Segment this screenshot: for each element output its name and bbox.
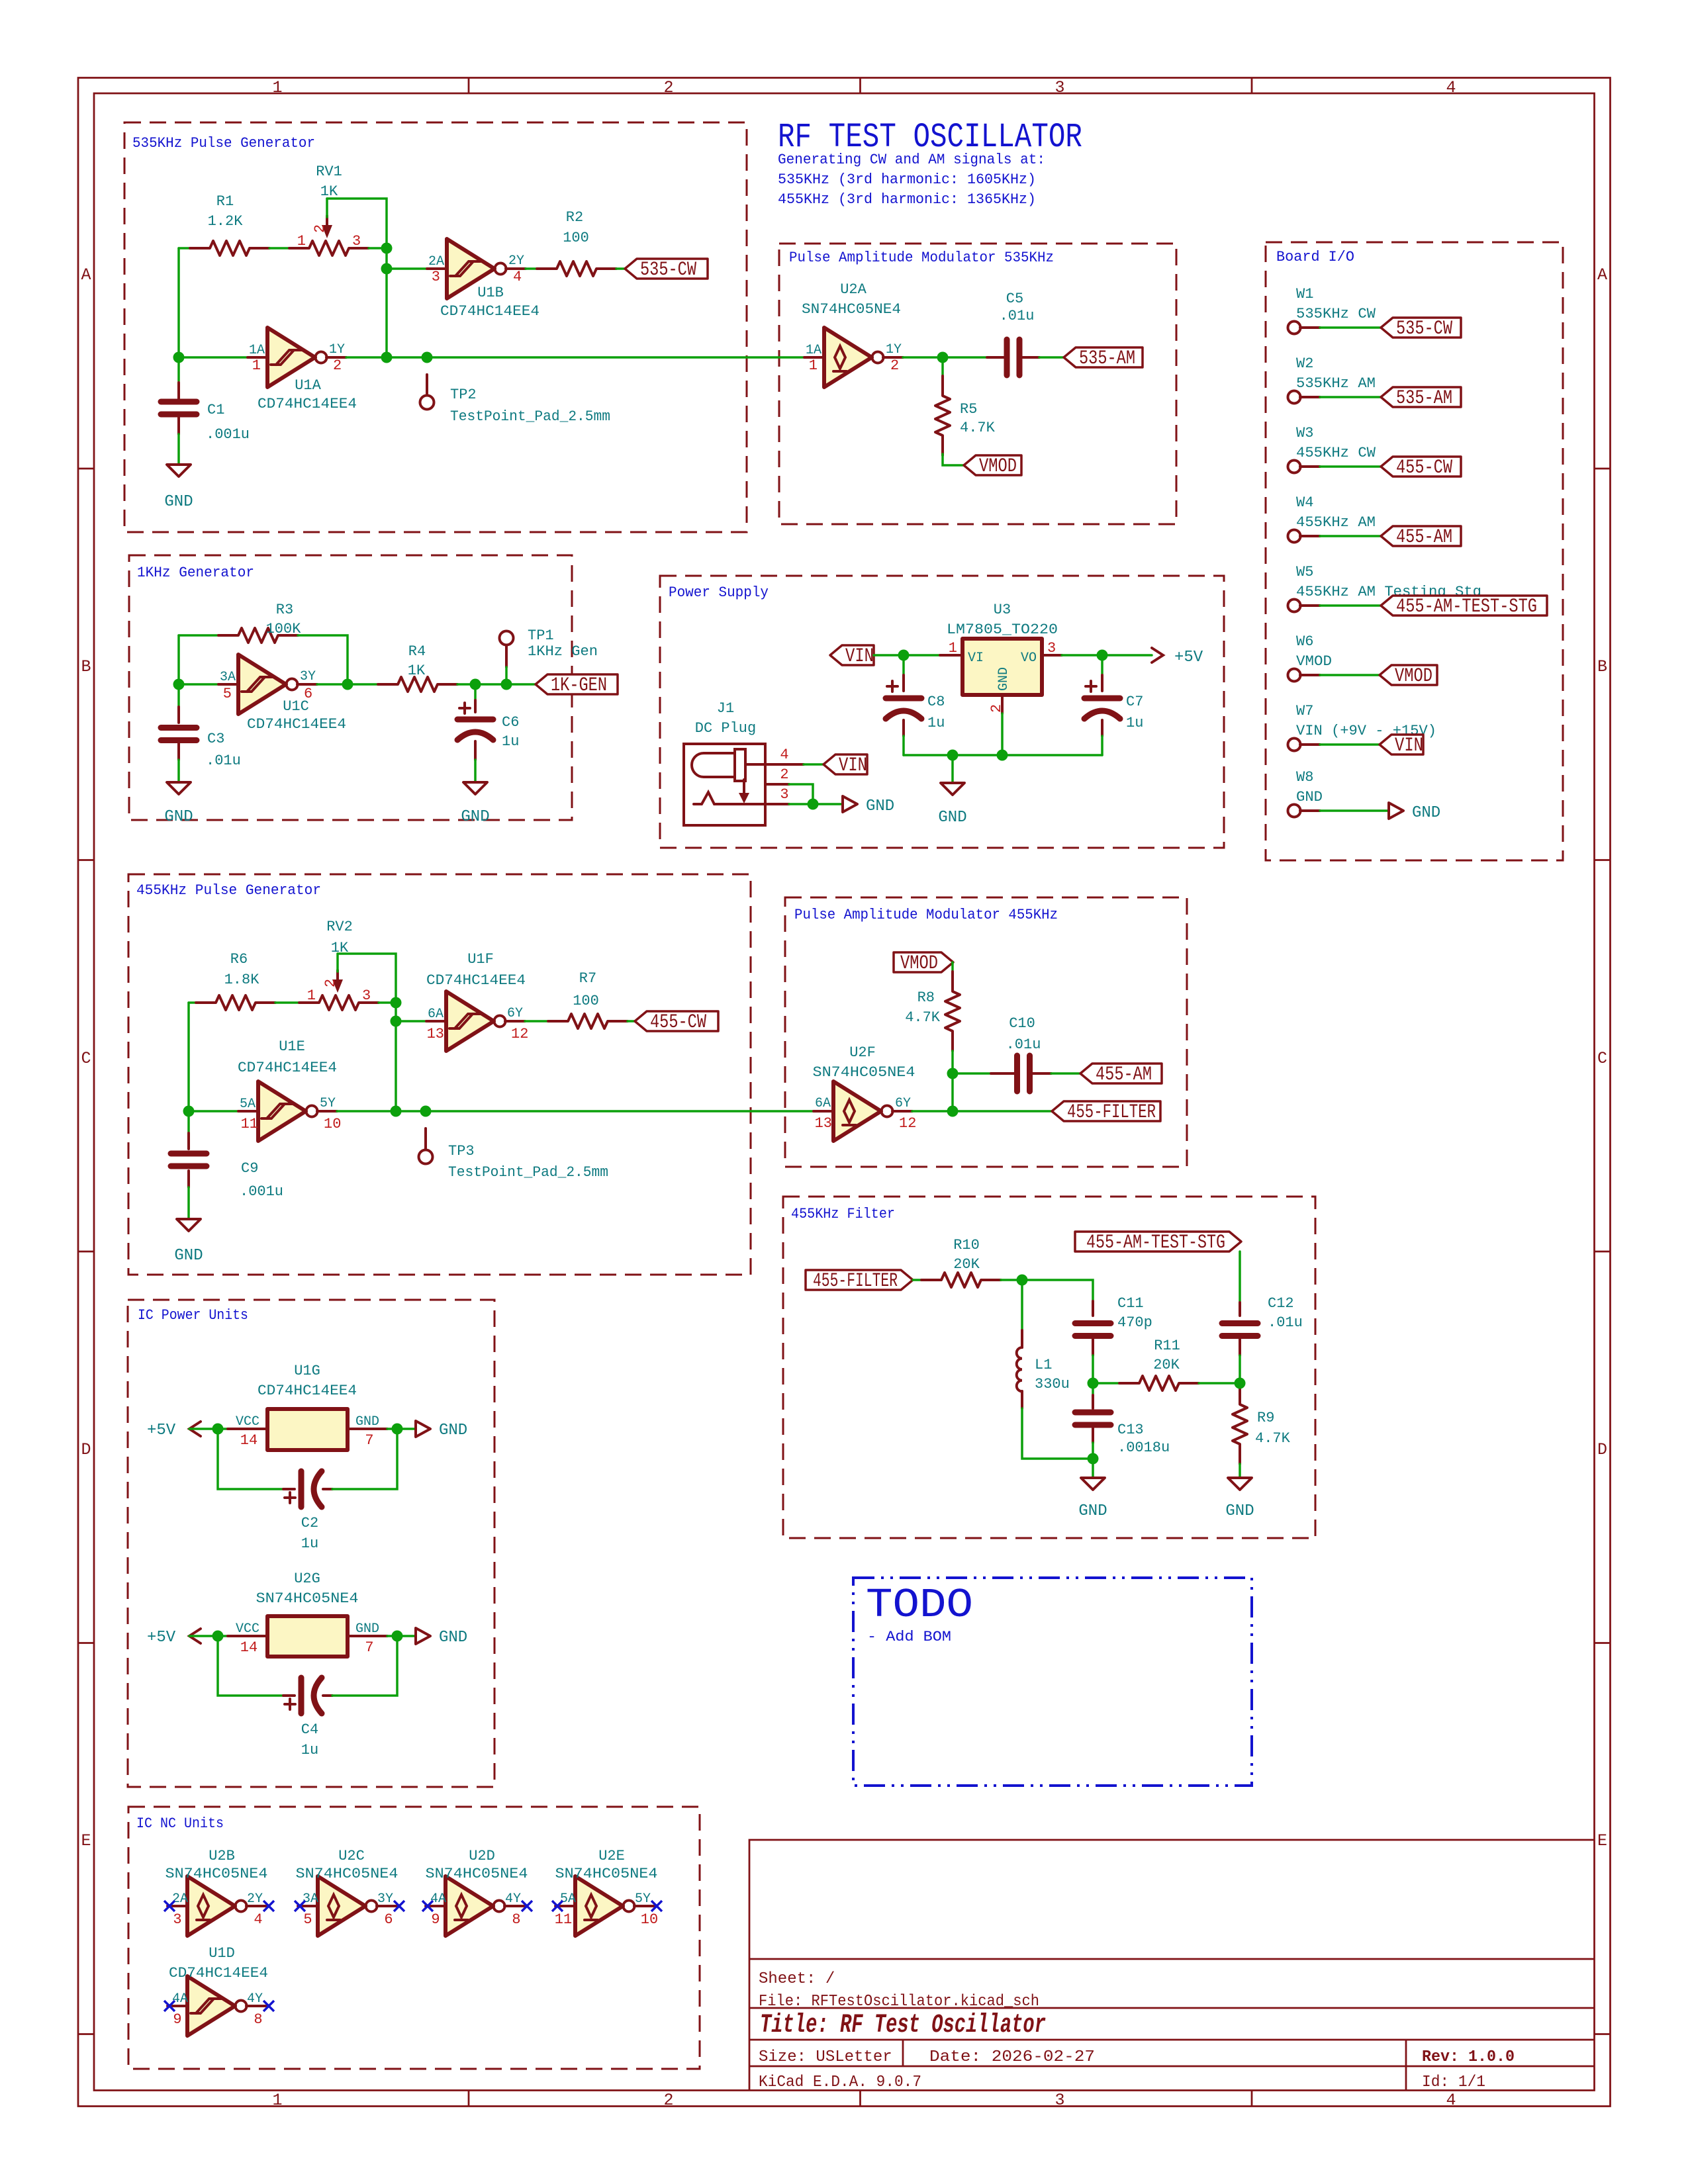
svg-text:14: 14 — [240, 1639, 258, 1656]
op-amp U1A (schmitt inverter) — [248, 328, 346, 387]
svg-text:4Y: 4Y — [247, 1991, 263, 2007]
junction node RV2 right — [391, 997, 402, 1009]
svg-text:KiCad E.D.A. 9.0.7: KiCad E.D.A. 9.0.7 — [759, 2073, 921, 2091]
connector J1 DC Plug — [684, 744, 765, 825]
svg-text:GND: GND — [866, 797, 894, 815]
svg-text:6Y: 6Y — [507, 1006, 523, 1021]
svg-text:Generating CW and AM signals a: Generating CW and AM signals at: — [778, 152, 1045, 168]
svg-text:100: 100 — [573, 993, 599, 1009]
svg-text:SN74HC05NE4: SN74HC05NE4 — [802, 301, 901, 318]
svg-text:.01u: .01u — [1006, 1036, 1041, 1053]
svg-text:GND: GND — [355, 1621, 379, 1637]
section box 535KHz Pulse Generator — [124, 122, 747, 532]
svg-text:VIN: VIN — [1395, 735, 1423, 757]
svg-text:4Y: 4Y — [505, 1891, 521, 1907]
svg-text:A: A — [1597, 265, 1607, 285]
transistor U2A (open-drain inverter) — [804, 328, 903, 387]
svg-text:1KHz Gen: 1KHz Gen — [528, 643, 598, 660]
svg-text:Board I/O: Board I/O — [1276, 249, 1354, 265]
capacitor C7 (polarized) — [1101, 655, 1103, 675]
hierarchical label 535-CW — [625, 259, 708, 279]
hierarchical label 535-AM (W2) — [1381, 387, 1461, 407]
capacitor C4 (bypass polarized) — [218, 1636, 283, 1696]
hierarchical label 455-AM — [1080, 1064, 1162, 1083]
test point TP2 — [426, 375, 428, 394]
svg-text:455KHz AM: 455KHz AM — [1296, 514, 1376, 531]
svg-text:U2C: U2C — [338, 1848, 365, 1864]
junction node TP2 — [422, 352, 433, 363]
op-amp U1D (NC schmitt inverter) — [167, 1976, 266, 2036]
svg-text:2: 2 — [663, 78, 673, 97]
svg-text:SN74HC05NE4: SN74HC05NE4 — [813, 1064, 915, 1081]
svg-text:1u: 1u — [1126, 715, 1143, 731]
svg-text:455KHz (3rd harmonic: 1365KHz): 455KHz (3rd harmonic: 1365KHz) — [778, 191, 1036, 208]
wire C3 node to U1C — [179, 683, 218, 686]
svg-text:.01u: .01u — [1268, 1314, 1303, 1331]
svg-text:3: 3 — [1055, 2091, 1064, 2110]
junction node main/feedback — [391, 1106, 402, 1117]
svg-text:5A: 5A — [240, 1097, 256, 1112]
svg-text:2: 2 — [890, 357, 899, 374]
svg-text:C5: C5 — [1006, 291, 1023, 307]
no-connect X U2D input — [422, 1901, 433, 1911]
junction node rail gnd — [947, 750, 959, 761]
svg-text:Pulse Amplitude Modulator 455K: Pulse Amplitude Modulator 455KHz — [794, 907, 1058, 923]
section box 455KHz Pulse Generator — [128, 874, 751, 1275]
power symbol +5V (PS) — [1152, 648, 1163, 662]
section box Pulse Amplitude Modulator 455KHz — [785, 897, 1187, 1167]
svg-text:11: 11 — [555, 1911, 572, 1928]
junction node R10/L1 — [1017, 1275, 1028, 1286]
svg-text:U2A: U2A — [840, 281, 867, 298]
svg-text:1: 1 — [272, 78, 282, 97]
wire RV2 to node — [379, 1001, 396, 1004]
wire R8 to C10 node — [951, 1051, 954, 1073]
resistor R6 — [196, 995, 275, 1010]
svg-text:W5: W5 — [1296, 564, 1313, 580]
svg-text:C: C — [1597, 1049, 1607, 1068]
svg-text:B: B — [81, 657, 91, 676]
svg-text:10: 10 — [324, 1116, 341, 1132]
IC power unit U2G — [228, 1635, 387, 1637]
svg-text:B: B — [1597, 657, 1607, 676]
ground symbol (C13) — [1081, 1478, 1105, 1490]
wire C9 to ground — [187, 1187, 190, 1219]
junction node R3 feedback — [342, 679, 353, 690]
svg-text:6: 6 — [304, 686, 312, 702]
wire U1F to R7 — [525, 1020, 548, 1023]
svg-text:1u: 1u — [301, 1742, 318, 1758]
svg-text:6A: 6A — [428, 1007, 444, 1022]
svg-text:20K: 20K — [1153, 1357, 1180, 1373]
junction node main/feedback — [381, 352, 393, 363]
svg-text:12: 12 — [899, 1115, 916, 1132]
svg-text:C: C — [81, 1049, 91, 1068]
hierarchical label 455-CW (W3) — [1381, 457, 1461, 477]
svg-text:TP2: TP2 — [450, 387, 477, 403]
svg-text:GND: GND — [439, 1422, 467, 1439]
power symbol +5V (U1G) — [189, 1422, 201, 1436]
potentiometer RV1 — [289, 241, 369, 255]
hierarchical label 1K-GEN — [536, 674, 618, 694]
svg-text:2: 2 — [780, 766, 788, 783]
title block outline — [749, 1840, 1595, 2091]
svg-text:C4: C4 — [301, 1721, 318, 1738]
svg-text:C13: C13 — [1117, 1422, 1144, 1438]
svg-text:R10: R10 — [953, 1237, 980, 1253]
capacitor C1 — [177, 357, 180, 381]
svg-text:455-FILTER: 455-FILTER — [1067, 1101, 1156, 1124]
IC power unit U1G — [228, 1428, 387, 1430]
junction node TP3 — [420, 1106, 432, 1117]
potentiometer RV2 — [299, 995, 379, 1010]
wire C4 to GND side — [332, 1636, 397, 1696]
wire U3 out to +5V — [1062, 654, 1152, 657]
no-connect X U2B input — [164, 1901, 175, 1911]
svg-text:SN74HC05NE4: SN74HC05NE4 — [256, 1590, 359, 1607]
svg-text:535KHz AM: 535KHz AM — [1296, 375, 1376, 392]
svg-text:3: 3 — [432, 269, 440, 285]
svg-text:10: 10 — [641, 1911, 658, 1928]
no-connect X U2C input — [295, 1901, 305, 1911]
svg-text:535-AM: 535-AM — [1079, 347, 1135, 370]
svg-text:CD74HC14EE4: CD74HC14EE4 — [169, 1965, 268, 1981]
svg-text:C11: C11 — [1117, 1295, 1144, 1312]
frame row ticks left — [78, 469, 94, 2034]
wire C13 to gnd node — [1092, 1443, 1094, 1478]
hierarchical label 535-AM — [1064, 347, 1143, 367]
svg-text:U1F: U1F — [467, 951, 494, 968]
ground symbol (R9) — [1228, 1478, 1252, 1490]
svg-text:E: E — [81, 1831, 91, 1850]
wire R2 to label — [616, 267, 625, 270]
wire VMOD to R8 — [951, 962, 954, 973]
svg-text:U2G: U2G — [294, 1570, 320, 1587]
svg-text:U1B: U1B — [477, 285, 504, 301]
wire C7 to rail — [1101, 736, 1103, 755]
svg-text:4.7K: 4.7K — [905, 1009, 941, 1026]
svg-text:SN74HC05NE4: SN74HC05NE4 — [296, 1866, 399, 1882]
svg-text:330u: 330u — [1035, 1376, 1070, 1392]
no-connect X U1D output — [263, 2001, 274, 2011]
svg-text:.0018u: .0018u — [1117, 1439, 1170, 1456]
svg-text:2: 2 — [988, 704, 1005, 713]
svg-text:455-AM: 455-AM — [1396, 526, 1452, 549]
svg-text:A: A — [81, 265, 91, 285]
wire node to U1F input — [396, 1020, 426, 1023]
svg-text:3: 3 — [780, 786, 788, 803]
hierarchical label 535-CW (W1) — [1381, 318, 1461, 338]
svg-text:IC NC Units: IC NC Units — [136, 1815, 224, 1832]
svg-text:4A: 4A — [172, 1991, 188, 2007]
svg-text:3A: 3A — [220, 670, 236, 685]
svg-text:GND: GND — [174, 1247, 203, 1265]
wire net R1 input vertical — [177, 248, 180, 357]
ground symbol (C1) — [167, 465, 191, 477]
svg-text:1u: 1u — [927, 715, 945, 731]
wire C3 to ground — [177, 760, 180, 782]
hierarchical label VMOD (455) — [894, 952, 953, 972]
wire C5 to label — [1039, 356, 1064, 359]
power symbol GND arrow (J1) — [843, 796, 857, 812]
wire node to U1B input — [387, 267, 427, 270]
svg-text:1: 1 — [809, 357, 818, 374]
svg-text:3: 3 — [362, 987, 371, 1004]
svg-text:4: 4 — [254, 1911, 262, 1928]
junction node U1G GND — [392, 1424, 403, 1435]
svg-text:455KHz Filter: 455KHz Filter — [791, 1206, 895, 1222]
junction node U2G VCC — [212, 1631, 224, 1642]
svg-text:U1G: U1G — [294, 1363, 320, 1379]
wire +5V to VCC — [189, 1428, 228, 1430]
J1 barrel — [692, 753, 735, 777]
svg-text:6Y: 6Y — [895, 1096, 911, 1111]
resistor R9 — [1233, 1385, 1247, 1464]
junction node R8/C10 — [947, 1068, 959, 1079]
frame column ticks bottom — [469, 2091, 1252, 2107]
svg-text:VMOD: VMOD — [1395, 665, 1432, 688]
svg-text:VI: VI — [968, 651, 984, 666]
svg-text:6: 6 — [384, 1911, 393, 1928]
transistor U2C (NC inverter) — [298, 1876, 397, 1936]
ground symbol (C3) — [167, 782, 191, 794]
svg-text:CD74HC14EE4: CD74HC14EE4 — [258, 1383, 357, 1399]
svg-text:535-CW: 535-CW — [1396, 318, 1452, 340]
svg-text:455-AM-TEST-STG: 455-AM-TEST-STG — [1086, 1232, 1225, 1254]
power symbol GND arrow (U2G) — [416, 1628, 430, 1644]
power symbol GND arrow (W8) — [1389, 803, 1403, 819]
svg-text:9: 9 — [173, 2011, 181, 2028]
resistor R8 — [945, 972, 960, 1051]
no-connect X U2E input — [552, 1901, 563, 1911]
svg-text:W6: W6 — [1296, 633, 1313, 650]
svg-text:IC Power Units: IC Power Units — [138, 1307, 248, 1324]
svg-text:20K: 20K — [953, 1256, 980, 1273]
svg-text:W7: W7 — [1296, 703, 1313, 719]
wire C8 to rail — [902, 736, 905, 755]
svg-text:GND: GND — [439, 1629, 467, 1647]
wire label to R10 — [913, 1279, 921, 1281]
capacitor C3 — [177, 684, 180, 707]
hierarchical label 455-AM (W4) — [1381, 526, 1461, 546]
svg-text:J1: J1 — [717, 700, 734, 717]
section box 1KHz Generator — [129, 555, 572, 820]
no-connect X U1D input — [164, 2001, 175, 2011]
svg-text:2: 2 — [312, 224, 328, 233]
svg-text:.01u: .01u — [1000, 308, 1035, 324]
svg-text:455-FILTER: 455-FILTER — [813, 1270, 898, 1293]
wire U1B to R2 — [526, 267, 537, 270]
svg-text:535-CW: 535-CW — [640, 259, 696, 281]
svg-text:U3: U3 — [994, 602, 1011, 618]
svg-text:L1: L1 — [1035, 1357, 1052, 1373]
svg-text:RV2: RV2 — [326, 919, 353, 935]
wire R3 feedback left — [177, 635, 180, 684]
wire C10 node — [953, 1072, 991, 1075]
svg-text:1: 1 — [272, 2091, 282, 2110]
junction node C1 top — [173, 352, 185, 363]
junction node RV1 right — [381, 243, 393, 254]
hierarchical label 455-FILTER (input) — [806, 1270, 913, 1290]
svg-text:2Y: 2Y — [247, 1891, 263, 1907]
wire gnd stem — [951, 755, 954, 783]
junction node U2G GND — [392, 1631, 403, 1642]
test point TP1 — [505, 646, 508, 667]
wire R7 to label — [628, 1020, 635, 1023]
svg-text:4: 4 — [513, 269, 522, 285]
hierarchical label 455-FILTER — [1052, 1101, 1160, 1121]
power symbol GND arrow (U1G) — [416, 1421, 430, 1437]
capacitor C11 — [1092, 1301, 1094, 1355]
wire C9 node to U1E — [189, 1110, 238, 1113]
svg-text:SN74HC05NE4: SN74HC05NE4 — [165, 1866, 268, 1882]
J1 pin 4 — [745, 763, 804, 766]
hierarchical label VIN (J1) — [823, 754, 867, 774]
svg-text:5: 5 — [223, 686, 232, 702]
svg-text:4A: 4A — [430, 1891, 446, 1907]
junction node L1/C13 — [1088, 1453, 1099, 1465]
capacitor C9 — [187, 1111, 190, 1133]
inductor L1 — [1021, 1280, 1023, 1330]
svg-text:2: 2 — [322, 979, 339, 987]
wire R6 to RV2 — [275, 1001, 299, 1004]
wire R3 to output node — [298, 635, 348, 684]
svg-text:11: 11 — [241, 1116, 258, 1132]
ground symbol (PS) — [941, 783, 964, 795]
svg-text:1K-GEN: 1K-GEN — [551, 674, 607, 697]
wire VIN to U3 — [874, 654, 940, 657]
svg-text:C7: C7 — [1126, 694, 1143, 710]
wire C11 to R11 node — [1092, 1355, 1094, 1383]
wire C1 to ground — [177, 434, 180, 465]
section box Power Supply — [660, 576, 1224, 848]
wire node to R5 — [941, 357, 944, 377]
svg-text:W1: W1 — [1296, 286, 1313, 302]
section box Board I/O — [1266, 242, 1563, 860]
svg-text:455KHz CW: 455KHz CW — [1296, 445, 1376, 461]
junction node U1G VCC — [212, 1424, 224, 1435]
junction node C8 top — [898, 650, 910, 661]
wire left vertical — [187, 1003, 190, 1111]
svg-text:2Y: 2Y — [508, 253, 524, 269]
capacitor C5 — [987, 356, 1039, 359]
svg-text:LM7805_TO220: LM7805_TO220 — [947, 621, 1058, 638]
svg-text:GND: GND — [1296, 789, 1323, 805]
wire GND pin to arrow — [387, 1428, 416, 1430]
section box 455KHz Filter — [783, 1197, 1315, 1538]
resistor R5 — [935, 376, 950, 455]
svg-text:Rev: 1.0.0: Rev: 1.0.0 — [1422, 2048, 1515, 2066]
svg-text:C8: C8 — [927, 694, 945, 710]
wire R11 to R9 node — [1199, 1382, 1240, 1385]
svg-text:1u: 1u — [502, 733, 519, 750]
svg-text:CD74HC14EE4: CD74HC14EE4 — [258, 396, 357, 412]
svg-text:1: 1 — [297, 233, 306, 250]
svg-text:1: 1 — [949, 640, 957, 657]
svg-text:455-AM: 455-AM — [1096, 1064, 1152, 1086]
svg-text:U2B: U2B — [209, 1848, 235, 1864]
svg-text:2A: 2A — [172, 1891, 188, 1907]
ground symbol (C6) — [463, 782, 487, 794]
capacitor C6 (polarized) — [474, 684, 477, 700]
svg-text:GND: GND — [1412, 804, 1440, 822]
svg-text:CD74HC14EE4: CD74HC14EE4 — [238, 1060, 337, 1076]
no-connect X U2E output — [651, 1901, 662, 1911]
hierarchical label VIN — [830, 645, 874, 665]
svg-text:GND: GND — [1078, 1502, 1107, 1520]
svg-text:R2: R2 — [566, 209, 583, 226]
svg-text:5Y: 5Y — [635, 1891, 651, 1907]
svg-text:.001u: .001u — [240, 1183, 283, 1200]
svg-text:455-AM-TEST-STG: 455-AM-TEST-STG — [1396, 596, 1537, 618]
junction node C3 — [173, 679, 185, 690]
junction node TP1 — [501, 679, 512, 690]
wire node to R11 — [1093, 1382, 1119, 1385]
no-connect X U2B output — [263, 1901, 274, 1911]
svg-text:Size: USLetter: Size: USLetter — [759, 2048, 892, 2066]
svg-text:DC Plug: DC Plug — [695, 720, 756, 737]
svg-text:TestPoint_Pad_2.5mm: TestPoint_Pad_2.5mm — [448, 1164, 608, 1181]
section box Pulse Amplitude Modulator 535KHz — [779, 244, 1176, 524]
wire C12 to node — [1239, 1355, 1241, 1383]
svg-text:VO: VO — [1021, 651, 1037, 666]
resistor R11 — [1119, 1376, 1199, 1390]
svg-text:5A: 5A — [560, 1891, 576, 1907]
svg-text:100K: 100K — [266, 621, 302, 637]
wire U1E output main — [337, 1110, 814, 1113]
svg-text:VCC: VCC — [236, 1414, 259, 1430]
svg-text:GND: GND — [164, 808, 193, 826]
wire C2 to GND side — [332, 1429, 397, 1489]
svg-text:455-CW: 455-CW — [650, 1011, 706, 1034]
wire C6 to ground — [474, 760, 477, 782]
svg-text:VMOD: VMOD — [979, 455, 1017, 478]
resistor R1 — [190, 241, 269, 255]
svg-text:U1E: U1E — [279, 1038, 305, 1055]
svg-text:GND: GND — [1225, 1502, 1254, 1520]
J1 pin 2 — [765, 783, 789, 786]
junction node rail U3 — [997, 750, 1008, 761]
op-amp U1E (schmitt inverter) — [238, 1081, 337, 1141]
svg-text:4: 4 — [1446, 2091, 1456, 2110]
svg-text:.001u: .001u — [206, 426, 250, 443]
svg-text:3A: 3A — [303, 1891, 318, 1907]
svg-text:GND: GND — [164, 493, 193, 511]
svg-text:1.2K: 1.2K — [208, 213, 244, 230]
svg-text:1u: 1u — [301, 1535, 318, 1552]
svg-text:- Add BOM: - Add BOM — [867, 1629, 951, 1645]
svg-text:8: 8 — [254, 2011, 262, 2028]
svg-text:R3: R3 — [276, 602, 293, 618]
svg-text:4.7K: 4.7K — [960, 420, 996, 436]
wire R9 to ground — [1239, 1464, 1241, 1478]
svg-text:+5V: +5V — [147, 1629, 176, 1647]
capacitor C2 (bypass polarized) — [218, 1429, 283, 1489]
wire ground rail — [904, 754, 1102, 756]
svg-text:TP3: TP3 — [448, 1143, 475, 1160]
svg-text:1: 1 — [252, 357, 261, 374]
section box IC NC Units — [128, 1807, 700, 2069]
wire +5V to VCC (U2G) — [189, 1635, 228, 1637]
transistor U2F (open-drain inverter) — [814, 1081, 912, 1141]
wire U2A output — [903, 356, 987, 359]
wire R1 to RV1 — [269, 247, 289, 250]
svg-text:13: 13 — [427, 1026, 444, 1042]
svg-text:2: 2 — [663, 2091, 673, 2110]
resistor R7 — [548, 1014, 628, 1028]
wire C10 to label — [1051, 1072, 1080, 1075]
svg-text:12: 12 — [511, 1026, 528, 1042]
